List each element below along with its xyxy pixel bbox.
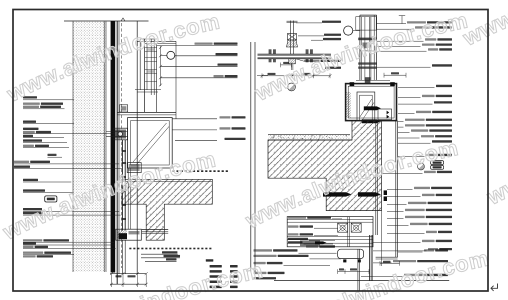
slab finish double line <box>122 180 212 182</box>
left panel: wall top cap line <box>64 20 149 22</box>
indoor label rounded box <box>45 196 57 202</box>
wall inner boundary line <box>103 22 105 273</box>
glass joint connector under beam <box>289 59 296 64</box>
top label texts right column <box>195 43 213 45</box>
anchor plate black squares <box>384 190 387 195</box>
sill block <box>116 229 142 240</box>
upstand edge vertical to dim <box>381 211 383 267</box>
hanger turnbuckle box <box>287 34 296 40</box>
head box inner glass frame <box>357 92 375 121</box>
small connector above bracket <box>120 105 128 112</box>
window sill assembly <box>287 217 373 247</box>
mid leader labels left of mullion <box>322 21 341 23</box>
dashed centerline <box>121 23 123 268</box>
bottom verticals dark pair <box>369 235 371 281</box>
long vertical - glass plane line <box>136 21 138 274</box>
legend table rows <box>210 265 222 268</box>
sill bottom rounded bar <box>338 249 364 258</box>
annotation black arrow <box>315 241 327 244</box>
hanger lower wedge <box>287 40 298 47</box>
mid leader lines to labels <box>172 118 217 120</box>
upper assembly horizontals <box>140 38 157 40</box>
concrete slab with hatch <box>268 121 382 211</box>
connector box below glass <box>127 163 141 173</box>
ceiling beam double lines <box>258 53 332 55</box>
window head box outer profile <box>346 84 397 121</box>
underlined note texts below sill <box>141 253 178 255</box>
mullion stack joint ticks <box>122 150 126 152</box>
mullion top cap <box>360 14 377 16</box>
anchor bracket on mullion <box>113 128 127 140</box>
right panel left annotation rows upper <box>288 216 306 218</box>
sill bolt boxes with X <box>338 223 348 232</box>
upper assembly verticals <box>139 39 141 90</box>
head box connector above <box>365 77 371 83</box>
steel tube - thick black bar <box>111 21 116 273</box>
upper assembly rungs <box>145 47 157 49</box>
indoor outdoor legend boxes <box>431 161 444 165</box>
head box black corner blocks <box>350 82 355 86</box>
floor slab with concrete hatch <box>122 179 212 240</box>
dashed aluminum row lower <box>129 248 131 250</box>
mid label texts <box>220 116 231 118</box>
bolt circle on mullion <box>344 26 353 35</box>
bottom cap lines right <box>376 256 398 258</box>
right label column rows <box>407 21 426 23</box>
dim 250 under beam <box>262 75 330 77</box>
sill inner details <box>287 235 373 237</box>
glass fixing circle <box>167 51 175 59</box>
inner pane verticals below head <box>375 121 377 235</box>
slab anchor arrows <box>323 192 352 196</box>
upper dim line with ticks <box>160 46 162 86</box>
ground line <box>274 280 449 282</box>
head box left hatched jamb <box>346 92 351 118</box>
bottom dim right <box>380 262 400 264</box>
legend table title <box>206 259 214 261</box>
small tick near panel gap top <box>257 75 268 77</box>
left annotation column rows <box>23 96 37 98</box>
break mark on cap line <box>121 18 125 21</box>
glass panel box <box>128 118 173 168</box>
head box right pocket with bolts <box>378 109 392 120</box>
mullion crossbars <box>358 38 377 41</box>
head dim line <box>384 74 406 76</box>
bottom dim left <box>338 271 369 273</box>
elbow leader top right <box>377 23 406 25</box>
page return mark <box>491 284 498 291</box>
hanger rod <box>290 21 292 55</box>
beam clips <box>269 49 272 54</box>
floor finish stipple band <box>268 135 350 140</box>
dashed aluminum row upper <box>172 170 174 172</box>
section mark circle <box>288 83 296 91</box>
head box bolts - black arrows <box>364 106 381 110</box>
right panel left annotation rows lower <box>254 249 273 251</box>
verticals below sill <box>121 240 123 274</box>
inter-panel glass plane verticals <box>250 42 252 272</box>
main mullion verticals <box>359 15 361 80</box>
outer pane verticals below head <box>395 121 397 258</box>
long bottom-right labels <box>424 249 434 251</box>
section mark circle right <box>418 163 425 170</box>
masonry wall with stipple hatch <box>73 22 106 273</box>
top leader lines to labels <box>157 44 238 46</box>
dim 50 under connector <box>281 64 292 66</box>
bottom dimension lines <box>110 273 146 275</box>
mullion continuation below glass box <box>121 140 123 231</box>
scale note 1:20 <box>48 154 57 156</box>
sill assembly upper bar <box>142 228 168 230</box>
mullion face lines <box>116 21 118 284</box>
